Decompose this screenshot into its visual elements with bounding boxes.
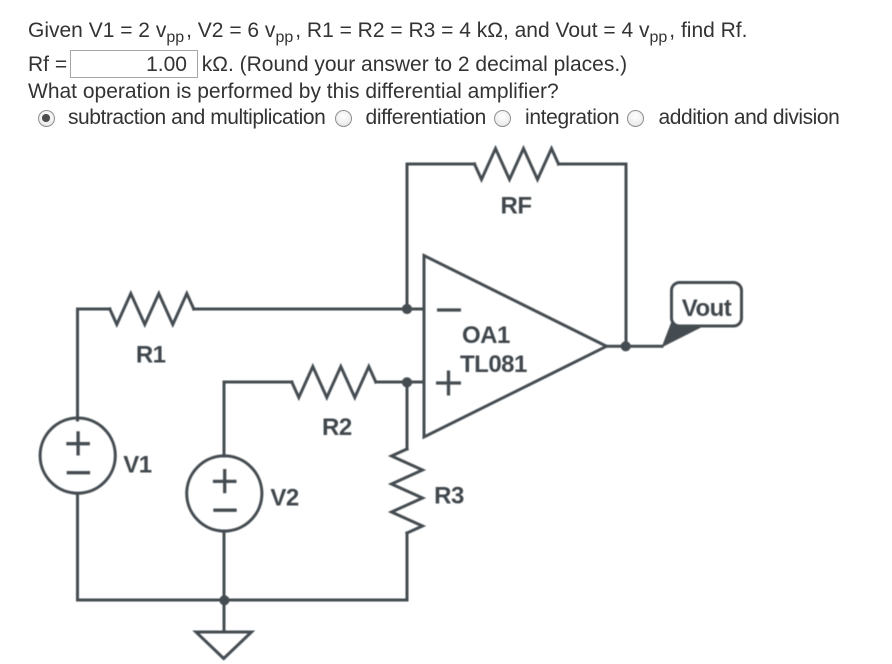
resistor R1 [110, 294, 194, 325]
question line 2 with answer box [28, 50, 627, 78]
wire: R1 to inverting input [194, 308, 424, 311]
op-amp inverting input minus symbol [437, 308, 461, 311]
svg-text:R1: R1 [136, 342, 166, 369]
question line 1 [28, 18, 747, 46]
resistor R3 [392, 449, 423, 533]
radio option 1 (selected): subtraction and multiplication [38, 110, 55, 127]
ground triangle [196, 632, 252, 659]
voltage source V1 [40, 418, 115, 493]
Vout label box [672, 283, 742, 327]
wire: op-amp output [607, 345, 663, 348]
svg-text:OA1: OA1 [462, 322, 510, 349]
junction node: ground rail [219, 595, 229, 605]
resistor RF [475, 149, 559, 180]
svg-text:TL081: TL081 [460, 351, 527, 378]
wire: feedback loop left vertical (inverting node up to RF) [407, 164, 475, 309]
svg-text:V2: V2 [270, 485, 299, 512]
wire: V1 node to R1 [78, 309, 110, 420]
wire: non-inverting node down to R3 [406, 382, 409, 449]
svg-text:R3: R3 [434, 483, 464, 510]
junction node: non-inverting input [402, 377, 412, 387]
V1 plus sign [66, 442, 90, 445]
junction node: inverting input [402, 304, 412, 314]
V2 minus sign [213, 509, 236, 512]
svg-text:Vout: Vout [682, 295, 732, 322]
wire: R3 bottom to ground rail [406, 533, 409, 600]
svg-text:V1: V1 [123, 452, 152, 479]
radio option 4: addition and division [627, 110, 644, 127]
V1 minus sign [67, 471, 90, 474]
wire: R2 to non-inverting input [376, 381, 424, 384]
svg-text:RF: RF [501, 193, 532, 220]
radio option 2: differentiation [335, 110, 352, 127]
svg-text:R2: R2 [322, 414, 352, 441]
ground stem [223, 600, 226, 632]
wire: RF to right vertical down to output node [559, 164, 627, 346]
radio option 3: integration [494, 110, 511, 127]
junction node: output [621, 341, 631, 351]
resistor R2 [292, 367, 376, 398]
V2 plus sign [213, 480, 237, 483]
wire: V1 bottom to ground rail [76, 493, 79, 600]
op-amp non-inverting input plus symbol [436, 381, 461, 384]
op-amp U1 triangle [424, 256, 607, 438]
question line 3 [28, 79, 559, 105]
voltage source V2 [187, 456, 262, 531]
wire: V2 top to R2 level [224, 382, 292, 456]
wire: V2 bottom to ground rail [223, 531, 226, 600]
wire: ground rail (bottom) [78, 599, 408, 602]
Vout flag pointer [662, 322, 705, 348]
